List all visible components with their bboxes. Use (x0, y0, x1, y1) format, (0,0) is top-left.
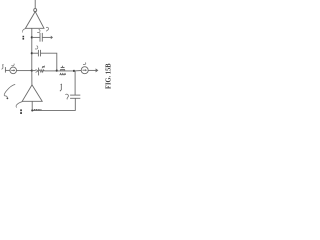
node dot (branch 2) (31, 52, 33, 54)
plate bar on rail (38, 68, 40, 76)
wire from C2 to corner and down to rail (41, 53, 57, 70)
wire from bottom node up to U2 base (31, 101, 33, 110)
node dot (branch 1) (31, 36, 33, 38)
wire branch 1 (32, 36, 40, 38)
reference numeral squares below U2 (20, 109, 22, 114)
wire branch 2 (32, 52, 39, 54)
transistor Q1 channel bar (60, 69, 65, 71)
vertical feedback wire from U1 base down to main rail (31, 28, 33, 70)
wire from rail node down to U2 apex (31, 71, 33, 85)
arrow inside I1 (11, 69, 14, 71)
label curl left of C3 (65, 94, 68, 99)
tiny rotated label Vin at left edge (2, 65, 4, 70)
op-amp U2 (lower, pointing up) (22, 85, 42, 101)
resistor R1 zigzag (39, 70, 45, 72)
capacitor C2 plates (37, 50, 39, 57)
svg-text:FIG. 15B: FIG. 15B (103, 63, 112, 89)
output arrow right (88, 69, 96, 71)
capacitor C1 plates (39, 33, 41, 42)
blob at S-flourish end (7, 98, 9, 100)
reference squiggle at U1 base-left (22, 29, 25, 33)
fuzzy label segment on bottom rail (34, 109, 42, 111)
label curl above I2 (83, 62, 86, 64)
node dot (right branch junction) (73, 70, 75, 72)
S-flourish reference leader left of U2 (4, 84, 15, 97)
label curl right of U1 base (46, 27, 48, 31)
vertical wire right branch down to C3 (74, 71, 76, 95)
transistor Q1 label marks below (60, 73, 66, 75)
label curl above C2 (35, 46, 38, 49)
wire from top edge to inverter bubble (34, 0, 36, 9)
label blob above R1 (42, 66, 44, 69)
rail wire node to transistor (57, 70, 74, 72)
node dot (C2 drop junction) (56, 70, 58, 72)
left terminal bar (4, 67, 6, 73)
wire from terminal to current source I1 (5, 69, 9, 71)
label curl above C1 (37, 29, 40, 32)
current source I1 (10, 67, 17, 74)
output arrow of branch 1 (42, 36, 51, 38)
node dot (rail / feedback junction) (31, 70, 33, 72)
arrow inside I2 (83, 69, 86, 71)
transistor Q1 source/drain legs (60, 70, 65, 71)
wire with arrowhead into bar (32, 70, 36, 72)
current source I2 (81, 67, 88, 74)
main rail wire I1 to node (17, 70, 32, 72)
inverter bubble (34, 9, 37, 12)
reference numeral squares below U1 (23, 36, 25, 40)
wire node to I2 (74, 70, 81, 72)
transistor Q1 gate bar (61, 67, 65, 69)
label curl above I1 (11, 64, 14, 66)
op-amp U1 (top inverter, pointing up) (25, 12, 44, 29)
tiny label near Q1 below (60, 84, 62, 91)
node dot (bottom rail) (31, 109, 33, 111)
reference squiggle at U2 base-left (16, 102, 23, 108)
capacitor C3 plates (70, 94, 80, 96)
wire from C3 down, along bottom, to U2 output node (32, 98, 75, 110)
transistor Q1 gate lead (62, 66, 64, 68)
rail wire R1 to node (44, 70, 57, 72)
